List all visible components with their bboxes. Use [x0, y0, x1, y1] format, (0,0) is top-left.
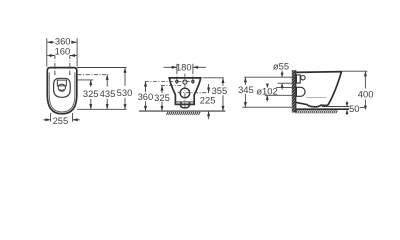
svg-text:530: 530 — [117, 87, 133, 98]
svg-text:50: 50 — [349, 103, 359, 114]
bowl drain arc — [60, 89, 64, 90]
outlet D shape — [296, 87, 305, 96]
bowl inner rim line — [49, 73, 75, 113]
dim 530 line — [124, 68, 126, 86]
toilet profile — [296, 72, 342, 107]
svg-text:325: 325 — [83, 88, 99, 99]
svg-text:160: 160 — [55, 46, 71, 57]
bowl drain circle — [58, 84, 65, 91]
dim 360 mid line — [145, 81, 147, 92]
dim 355 line — [222, 78, 224, 86]
o55 bottom arrow — [281, 83, 283, 90]
o102 bottom leader — [265, 94, 296, 96]
bowl jet tab — [57, 80, 66, 86]
dim 435 line — [106, 75, 108, 87]
dim 360 arrow left — [47, 41, 52, 44]
dim 180 arrow right — [193, 66, 198, 69]
dim 360 line — [47, 41, 76, 43]
leader 400 top — [343, 70, 368, 72]
dim 360 arrow right — [72, 41, 77, 44]
outlet centerline horizontal (dashed to 225 dim) — [178, 92, 209, 94]
leader 435 top (dash-dot) — [78, 74, 109, 76]
svg-text:325: 325 — [154, 92, 170, 103]
dim 180 tick left — [176, 64, 178, 71]
dim 325 line — [90, 80, 92, 87]
rear view foot left — [180, 102, 182, 105]
bowl hidden water line — [306, 97, 326, 99]
dim 400 line — [364, 71, 366, 88]
dim 160 centerline end dot left — [54, 74, 55, 75]
floor hatch fig2 — [167, 112, 201, 115]
bolt hole right — [192, 80, 194, 82]
dim 360 extension line right — [76, 38, 78, 66]
leader 530 top — [77, 67, 127, 69]
inlet hole centerline (dashed to 325 dim) — [161, 84, 182, 86]
dim 255 extension left — [50, 113, 52, 122]
dim 255 tails — [43, 119, 50, 121]
floor hatch fig3 — [296, 110, 338, 113]
svg-text:ø55: ø55 — [273, 60, 289, 71]
dim 255 arrow right — [73, 118, 78, 121]
dim 50 arrows — [346, 101, 348, 106]
bolt centerline right — [192, 71, 194, 85]
svg-text:360: 360 — [138, 91, 154, 102]
dim 160 centerline end dot right — [69, 74, 70, 75]
o55 bottom leader — [278, 82, 296, 84]
svg-text:345: 345 — [238, 84, 254, 95]
dim 50 elbow to 400 line — [360, 106, 366, 108]
inlet circle — [301, 76, 305, 80]
dim 160 arrow right — [70, 54, 75, 57]
wall face line — [295, 70, 297, 112]
o102 bottom arrow — [266, 95, 268, 101]
floor line fig2 — [139, 110, 226, 112]
svg-text:225: 225 — [200, 94, 216, 105]
floor leader left fig3 — [242, 106, 295, 108]
dim 180 tails — [164, 66, 177, 68]
long leader 345/inlet top — [244, 76, 295, 78]
o102 top arrow — [266, 84, 268, 88]
dim 160 line tails — [47, 55, 55, 57]
bolt holes centerline horizontal (dashed to left dim) — [145, 81, 194, 83]
center inlet hole — [183, 80, 187, 84]
dim 255 arrow left — [45, 118, 50, 121]
bowl outer outline — [47, 68, 77, 114]
vertical centerline — [184, 74, 186, 109]
bolt centerline left — [176, 71, 178, 85]
bolt hole left — [176, 80, 178, 82]
svg-text:435: 435 — [100, 88, 116, 99]
o102 top leader — [276, 87, 296, 89]
leader 355 top — [203, 77, 224, 79]
floor line fig3 — [296, 108, 349, 110]
bowl interior outline — [54, 78, 71, 97]
rear view foot right — [189, 102, 191, 105]
dim 50 top leader — [322, 106, 350, 108]
rear view inner bottom line — [175, 101, 194, 103]
leader 325 top — [77, 79, 94, 81]
dim 360 text — [54, 38, 71, 46]
dim 225 arrows — [208, 84, 210, 93]
dim 355 text — [212, 86, 228, 95]
svg-text:400: 400 — [358, 88, 374, 99]
bottom reference line fig1 — [77, 108, 127, 110]
rear view outline — [169, 78, 200, 105]
dim 160 centerline right — [69, 56, 71, 75]
dim 345 line — [244, 77, 246, 85]
rear view bottom bump — [180, 104, 189, 108]
dim 255 extension right — [72, 113, 74, 122]
wall hatch — [292, 70, 296, 112]
dim 180 tick right — [192, 64, 194, 71]
dim 160 centerline left — [54, 56, 56, 75]
dim 325 mid line — [161, 85, 163, 93]
svg-text:180: 180 — [176, 61, 192, 72]
outlet circle — [180, 88, 190, 98]
svg-text:255: 255 — [53, 115, 69, 126]
dim 360 extension line left — [46, 38, 48, 66]
inlet pipe box — [296, 75, 300, 83]
o55 top arrow — [281, 71, 283, 78]
dim 180 arrow left — [172, 66, 177, 69]
dim 160 arrow left — [50, 54, 55, 57]
